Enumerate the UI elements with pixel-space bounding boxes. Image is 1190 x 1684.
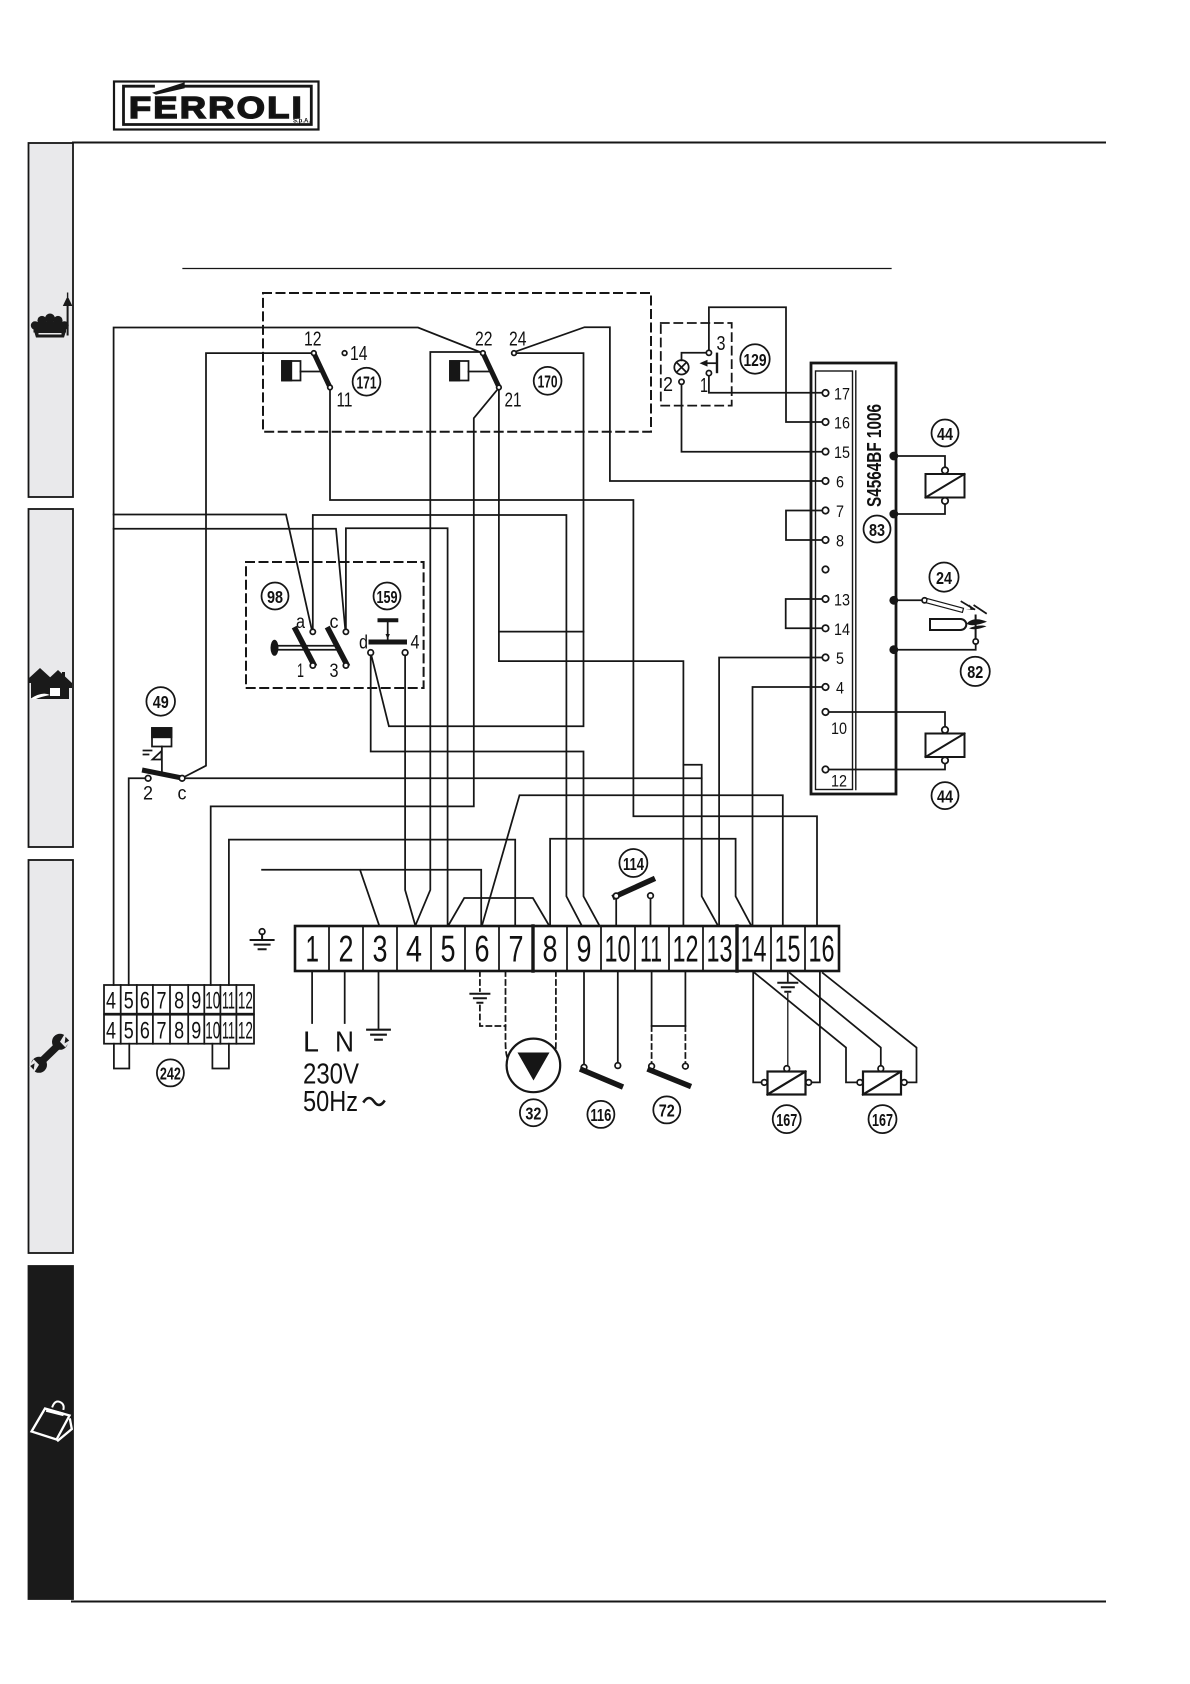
svg-text:116: 116 — [590, 1105, 611, 1125]
clipboard icon — [32, 1402, 72, 1441]
ionization electrode 24 — [896, 563, 986, 614]
svg-text:167: 167 — [776, 1110, 797, 1130]
wire terminal 5 to terminal 8 bridge — [449, 898, 549, 925]
svg-text:16: 16 — [809, 929, 835, 970]
section rule — [183, 268, 891, 270]
pin 5 — [822, 654, 828, 660]
svg-text:11: 11 — [222, 988, 235, 1015]
wire switch 49 contact 2 to block 242 — [129, 778, 146, 985]
wire contact 11 to terminal 16 — [330, 390, 817, 926]
wrench icon — [29, 1034, 70, 1073]
svg-text:159: 159 — [377, 587, 398, 607]
relay 170 — [450, 328, 561, 412]
svg-text:24: 24 — [936, 568, 952, 588]
pin 10 — [822, 709, 828, 715]
svg-text:3: 3 — [373, 929, 388, 970]
svg-text:FERROLI: FERROLI — [129, 90, 304, 125]
svg-text:5: 5 — [124, 988, 134, 1015]
FERROLI logo — [114, 82, 319, 130]
svg-text:6: 6 — [140, 988, 150, 1015]
svg-text:13: 13 — [707, 929, 733, 970]
pin 7 — [822, 507, 828, 513]
terminal block 242 — [104, 985, 254, 1086]
sofa icon — [31, 293, 73, 338]
svg-text:2: 2 — [143, 784, 153, 805]
svg-text:4: 4 — [406, 929, 422, 970]
svg-text:2: 2 — [339, 929, 354, 970]
earth symbol terminal 15 — [787, 971, 789, 981]
svg-text:8: 8 — [174, 988, 184, 1015]
earth terminal 6 dashed — [470, 971, 505, 1026]
svg-text:5: 5 — [836, 649, 844, 668]
pin 4 — [822, 684, 828, 690]
switch 98 — [262, 583, 349, 683]
svg-text:17: 17 — [834, 385, 850, 404]
svg-text:14: 14 — [741, 929, 767, 970]
svg-text:22: 22 — [475, 328, 493, 351]
sidebar tab 3 (service) — [29, 860, 74, 1253]
svg-text:242: 242 — [160, 1064, 181, 1084]
svg-text:24: 24 — [509, 328, 527, 351]
svg-text:8: 8 — [174, 1018, 184, 1045]
jumper pins 7-8 — [786, 511, 822, 541]
push button — [716, 354, 718, 372]
svg-text:6: 6 — [836, 473, 844, 492]
svg-text:44: 44 — [937, 424, 953, 444]
relay 44 upper — [896, 420, 965, 515]
gas valve 167 right — [755, 973, 917, 1133]
wire contact 24 to pin 6 — [516, 327, 822, 481]
pin blank — [822, 566, 828, 572]
svg-text:129: 129 — [744, 350, 767, 370]
earth symbol terminal 6 — [479, 971, 481, 991]
wire contact 22 to terminal 4 — [416, 352, 481, 925]
svg-text:167: 167 — [872, 1110, 893, 1130]
pump 32 — [506, 971, 561, 1126]
svg-text:N: N — [335, 1027, 354, 1059]
switch 72 — [649, 971, 689, 1123]
pin 6 — [822, 478, 828, 484]
pin 14 — [822, 625, 828, 631]
dashed box thermostat 98/159 — [246, 562, 424, 688]
svg-text:c: c — [178, 784, 187, 805]
svg-text:3: 3 — [717, 332, 726, 355]
dashed box relays 170/171 — [263, 293, 651, 432]
svg-text:9: 9 — [191, 1018, 201, 1045]
sidebar tab 2 (installation) — [28, 509, 73, 847]
svg-text:21: 21 — [505, 389, 522, 412]
wire switch 159 contact 4 to terminal 4 — [405, 655, 415, 925]
wire a to terminal 9 — [313, 515, 582, 925]
earth symbol mid — [251, 929, 274, 949]
pin 15 — [822, 448, 828, 454]
junction dot electrode 24 — [889, 596, 898, 605]
svg-text:2: 2 — [663, 373, 673, 396]
sidebar tab 1 (comfort) — [29, 143, 74, 497]
junction dot relay 44a coil- — [889, 510, 898, 519]
svg-text:6: 6 — [475, 929, 490, 970]
wire branch to switch 98 a (left feed) — [114, 515, 312, 629]
svg-text:S4564BF 1006: S4564BF 1006 — [864, 404, 886, 507]
svg-text:7: 7 — [836, 502, 844, 521]
wire earth to terminal 3 and terminal 6 — [262, 870, 481, 926]
svg-text:16: 16 — [834, 414, 850, 433]
svg-text:10: 10 — [205, 988, 220, 1015]
earth symbol terminal 3 — [367, 1030, 390, 1040]
svg-text:d: d — [359, 633, 368, 654]
svg-text:4: 4 — [836, 679, 844, 698]
svg-text:170: 170 — [538, 372, 558, 392]
svg-text:12: 12 — [673, 929, 699, 970]
svg-text:15: 15 — [775, 929, 801, 970]
svg-text:15: 15 — [834, 443, 850, 462]
svg-text:4: 4 — [106, 1018, 116, 1045]
page bottom rule — [72, 1601, 1105, 1603]
relay 171 — [282, 328, 380, 412]
svg-text:8: 8 — [543, 929, 558, 970]
sidebar tab 4 (warranty, black) — [29, 1266, 74, 1599]
svg-text:1: 1 — [700, 374, 708, 397]
svg-text:9: 9 — [577, 929, 592, 970]
svg-text:8: 8 — [836, 532, 844, 551]
svg-text:a: a — [296, 612, 305, 633]
svg-text:11: 11 — [337, 389, 353, 412]
svg-text:1: 1 — [297, 661, 304, 682]
svg-text:1: 1 — [306, 929, 320, 970]
wire switch 49 c to terminal 13 — [185, 778, 718, 925]
svg-text:14: 14 — [834, 620, 850, 639]
svg-text:S.p.A.: S.p.A. — [293, 119, 310, 125]
wire junction 21 to a-net — [499, 631, 584, 633]
wire contact 21 to block 242 pin10 — [211, 390, 498, 985]
wire pin 4 to terminal 14 — [753, 687, 823, 926]
svg-text:7: 7 — [157, 1018, 167, 1045]
svg-text:11: 11 — [222, 1018, 235, 1045]
relay 44 lower — [829, 712, 965, 809]
wire block 242 pin11 to terminal 7 — [229, 840, 515, 985]
svg-text:32: 32 — [525, 1104, 541, 1124]
wire lamp 2 to pin 15 — [682, 384, 823, 451]
svg-text:13: 13 — [834, 591, 850, 610]
junction dot electrode 82 — [889, 645, 898, 654]
ignition electrode 82 — [896, 616, 990, 687]
svg-text:11: 11 — [640, 929, 662, 970]
wire switch 159 d to terminal 10 — [371, 655, 599, 925]
wire c to terminal 5 — [346, 528, 448, 925]
pin 16 — [822, 419, 828, 425]
lamp — [674, 360, 688, 374]
wire pin 5 to terminal 13 — [719, 658, 822, 926]
page top rule — [73, 142, 1105, 144]
svg-text:4: 4 — [106, 988, 116, 1015]
svg-text:7: 7 — [157, 988, 167, 1015]
thermostat 49 — [143, 687, 187, 804]
controller S4564BF 1006 — [811, 363, 896, 794]
wire contact 12 to switch 49 c — [184, 353, 311, 777]
svg-text:98: 98 — [267, 587, 283, 607]
svg-text:72: 72 — [659, 1101, 675, 1121]
svg-text:12: 12 — [831, 772, 847, 791]
svg-text:5: 5 — [441, 929, 456, 970]
svg-text:114: 114 — [623, 854, 644, 874]
houses icon — [28, 668, 72, 699]
switch 159 — [359, 583, 420, 656]
wire net L top: node to contacts 22 — [114, 328, 481, 986]
wire terminal 6 to terminal 15 — [482, 795, 783, 925]
pin 17 — [822, 390, 828, 396]
svg-text:44: 44 — [937, 786, 953, 806]
main terminal strip 1-16 — [295, 926, 839, 971]
mains connections L N earth — [303, 971, 390, 1118]
dashed box 129 — [661, 323, 732, 406]
svg-text:5: 5 — [124, 1018, 134, 1045]
svg-text:L: L — [303, 1027, 319, 1059]
wire button 3 to pin 16 — [709, 307, 822, 422]
pin 8 — [822, 537, 828, 543]
wire branch to switch 98 c (left feed) — [114, 529, 346, 629]
earth terminal 15 — [778, 971, 797, 1066]
svg-text:12: 12 — [238, 1018, 253, 1045]
jumper pins 13-14 — [786, 599, 823, 628]
svg-text:c: c — [330, 612, 339, 633]
switch unit 129 — [663, 332, 770, 397]
svg-text:10: 10 — [205, 1018, 220, 1045]
connector pins — [822, 385, 850, 791]
wire branch 12cell to 13-net — [683, 765, 701, 779]
svg-text:12: 12 — [238, 988, 253, 1015]
svg-text:171: 171 — [357, 373, 377, 393]
gas valve 167 left — [753, 971, 820, 1133]
svg-text:10: 10 — [605, 929, 631, 970]
switch 116 — [581, 971, 620, 1128]
svg-text:50Hz: 50Hz — [303, 1086, 358, 1118]
svg-text:9: 9 — [191, 988, 201, 1015]
junction dot relay 44a coil+ — [889, 452, 898, 461]
svg-text:14: 14 — [350, 342, 368, 365]
svg-text:83: 83 — [869, 520, 885, 540]
wire terminal 8 to terminal 14 — [550, 839, 751, 926]
pin 12 — [822, 766, 828, 772]
svg-text:12: 12 — [304, 328, 322, 351]
svg-text:49: 49 — [153, 692, 169, 712]
wire contact 24 to switch 159 d — [371, 353, 583, 726]
pin 13 — [822, 596, 828, 602]
wire lamp to button 3 — [682, 353, 707, 361]
svg-text:3: 3 — [330, 661, 339, 682]
svg-text:6: 6 — [140, 1018, 150, 1045]
svg-text:10: 10 — [831, 719, 847, 738]
svg-text:4: 4 — [411, 633, 420, 654]
svg-text:7: 7 — [509, 929, 524, 970]
wire contact 21 to terminal 12 — [499, 390, 684, 926]
switch 114 — [613, 849, 653, 926]
svg-text:82: 82 — [967, 662, 983, 682]
wire button 1 to pin 17 — [709, 376, 822, 393]
